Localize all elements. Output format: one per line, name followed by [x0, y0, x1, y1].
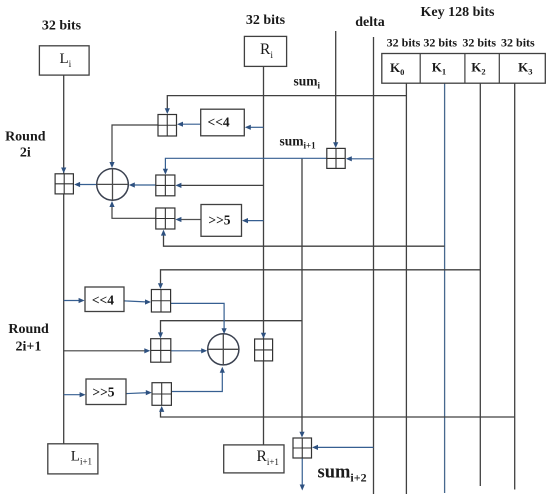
- arrow into sum adder round2 from delta: [312, 445, 318, 450]
- wire L to middle adder round2: [64, 350, 147, 352]
- wire R to shift-left-4 round1: [248, 126, 264, 128]
- arrow into round2 bottom adder from shift-right-5: [146, 390, 152, 395]
- adder box on L line: [55, 174, 73, 194]
- adder box round2 top: [151, 290, 170, 313]
- xor circle round1: [97, 169, 129, 201]
- wire sum rail into round2 middle adder: [161, 321, 303, 335]
- svg-text:Round: Round: [8, 322, 49, 337]
- arrow into R adder from R line: [261, 333, 266, 339]
- arrow into xor circle round1 right: [129, 182, 135, 187]
- arrow into round1 middle adder from sum: [163, 169, 168, 175]
- adder box round2 middle: [151, 339, 171, 363]
- adder box sum round2: [293, 438, 312, 458]
- wire sum feed down to round2 and sum adder: [301, 158, 303, 433]
- wire L line: [63, 75, 65, 444]
- box key K0-K3: [382, 54, 546, 84]
- box Ri+1: [224, 445, 284, 473]
- adder box on R line: [255, 339, 273, 361]
- wire sum adder round2 output down: [301, 458, 303, 486]
- arrow into sum adder round1 from sum-i line: [333, 142, 338, 148]
- box shift-right-5 round1: [201, 205, 242, 237]
- wire K0 to round1 top adder rail: [167, 96, 406, 111]
- wire xor circle round1 output to L adder: [78, 184, 97, 186]
- svg-text:32 bits: 32 bits: [42, 19, 82, 34]
- box Li+1: [48, 444, 98, 474]
- arrow into xor circle round1 bottom: [109, 201, 114, 207]
- wire K3 to round2 bottom adder rail: [161, 409, 515, 417]
- box Ri: [244, 36, 286, 66]
- arrow into shift-right-5 round2 from L: [80, 392, 86, 397]
- wire R to middle adder round1: [179, 184, 264, 186]
- wire K1 vertical: [444, 83, 446, 493]
- adder box round1 top: [158, 115, 177, 137]
- wire bottom adder round2 to xor circle round2: [171, 371, 222, 392]
- arrow into round1 middle adder from R: [175, 183, 181, 188]
- box shift-left-4 round2: [85, 287, 124, 312]
- svg-text:32 bits: 32 bits: [387, 36, 421, 50]
- wire sum adder output to round1 middle adder: [165, 158, 326, 171]
- arrow into L adder from xor circle: [74, 182, 80, 187]
- svg-text:Round: Round: [5, 130, 46, 145]
- wire delta to sum adder round2: [315, 446, 374, 448]
- svg-text:<<4: <<4: [92, 292, 114, 307]
- wire middle adder round2 to xor circle round2: [171, 350, 204, 352]
- arrow into round1 top adder from K0 rail: [165, 108, 170, 114]
- adder box round1 middle: [156, 175, 175, 196]
- arrow into xor circle round1 top: [109, 162, 114, 168]
- svg-text:2i: 2i: [20, 146, 31, 161]
- arrow into xor circle round2 bottom: [220, 367, 225, 373]
- wire shift-left-4 round2 to top adder round2: [124, 301, 148, 302]
- svg-text:sumi: sumi: [294, 74, 321, 91]
- arrow into xor circle round2 top: [222, 328, 227, 334]
- wire delta vertical: [373, 37, 375, 494]
- arrow into round1 top adder from shift-left-4: [177, 122, 183, 127]
- wire R to shift-right-5 round1: [245, 220, 264, 222]
- svg-text:2i+1: 2i+1: [15, 340, 41, 355]
- arrow into sum adder round1 from delta: [346, 156, 352, 161]
- arrow into round2 bottom adder from K3 rail: [159, 406, 164, 412]
- adder box round1 bottom: [156, 208, 175, 229]
- arrow sum i+2 output down: [300, 485, 305, 491]
- wire K3 vertical: [514, 83, 516, 489]
- arrow into sum adder round2 from sum line: [299, 432, 304, 438]
- wire middle adder round1 to xor circle: [133, 184, 156, 186]
- wire top adder round2 to xor circle round2: [171, 303, 225, 330]
- svg-text:>>5: >>5: [92, 384, 114, 399]
- arrow into shift-left-4 round1 from R: [245, 125, 251, 130]
- xor circle round2: [208, 334, 239, 365]
- arrow into round2 top adder from K2 rail: [158, 283, 163, 289]
- box shift-right-5 round2: [86, 379, 126, 405]
- svg-text:Key 128 bits: Key 128 bits: [421, 5, 495, 20]
- adder box sum round1: [327, 148, 345, 168]
- arrow into round1 bottom adder from K1 rail: [161, 230, 166, 236]
- arrow into round2 middle adder from L: [144, 348, 150, 353]
- svg-text:>>5: >>5: [208, 213, 230, 228]
- box shift-left-4 round1: [201, 109, 245, 136]
- arrow into shift-right-5 round1 from R: [242, 218, 248, 223]
- wire sum-i vertical: [335, 31, 337, 144]
- svg-text:32 bits: 32 bits: [246, 13, 286, 28]
- arrow into round2 middle adder from sum rail: [158, 332, 163, 338]
- arrow into round1 bottom adder from shift-right-5: [175, 217, 181, 222]
- wire bottom adder round1 to xor circle: [112, 206, 156, 219]
- arrow into xor circle round2 left: [201, 348, 207, 353]
- wire shift-left-4 output to top adder round1: [180, 123, 201, 125]
- svg-text:32 bits: 32 bits: [501, 36, 535, 50]
- wire K2 to round2 top adder rail: [161, 270, 481, 286]
- arrow into round2 top adder from shift-left-4: [145, 299, 151, 304]
- wire K0 vertical: [405, 83, 407, 494]
- arrow into shift-left-4 round2 from L: [79, 298, 85, 303]
- wire R line: [263, 66, 265, 445]
- box Li: [39, 46, 89, 75]
- wire top adder round1 to xor circle: [112, 125, 158, 164]
- svg-text:32 bits: 32 bits: [423, 36, 457, 50]
- wire K1 to round1 bottom adder rail: [164, 233, 445, 246]
- wire L to shift-left-4 round2: [64, 300, 82, 302]
- wire L to shift-right-5 round2: [64, 394, 83, 396]
- wire shift-right-5 output to bottom adder round1: [179, 219, 202, 221]
- wire K2 vertical: [479, 83, 481, 486]
- arrow into L adder from L line: [61, 168, 66, 174]
- svg-text:32 bits: 32 bits: [462, 36, 496, 50]
- svg-text:delta: delta: [355, 15, 385, 30]
- wire delta to sum adder round1: [349, 158, 374, 160]
- wire shift-right-5 round2 to bottom adder round2: [126, 393, 149, 394]
- svg-text:<<4: <<4: [208, 115, 230, 130]
- adder box round2 bottom: [152, 383, 171, 406]
